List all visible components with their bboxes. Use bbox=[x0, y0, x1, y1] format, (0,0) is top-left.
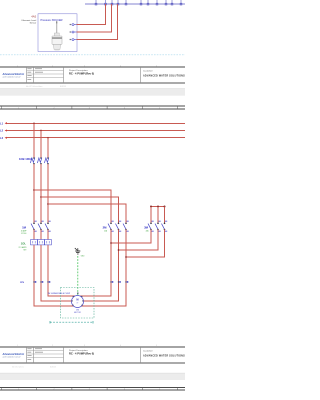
terminal marker T2 bbox=[40, 281, 43, 283]
wire rail L1 arrowhead bbox=[5, 122, 7, 124]
svg-text:1M SUBMERSIBLE PUMP: 1M SUBMERSIBLE PUMP bbox=[48, 293, 71, 295]
page 2 footer text bbox=[12, 367, 57, 369]
svg-text:3~: 3~ bbox=[76, 303, 78, 305]
wire 1M to 1OL phase A bbox=[33, 230, 35, 240]
wire L1 drop bbox=[33, 123, 35, 157]
junction L3 tap bbox=[47, 137, 49, 139]
page separator band bbox=[0, 89, 185, 96]
terminal marker T1 bbox=[33, 281, 36, 283]
svg-text:2: 2 bbox=[54, 389, 55, 391]
wire motor lead T5 vertical bbox=[84, 230, 119, 302]
svg-text:file:///C:/Users: file:///C:/Users bbox=[12, 367, 24, 369]
wire L2 drop bbox=[40, 131, 42, 158]
svg-text:5: 5 bbox=[159, 389, 160, 391]
motor nameplate text bbox=[74, 309, 81, 314]
junction tap to 2M phase C bbox=[47, 203, 49, 205]
sensor terminal 3 bbox=[70, 39, 77, 41]
wire tap phase C to 2M bbox=[48, 204, 126, 223]
breaker 1CB pole C bbox=[44, 157, 48, 164]
wire phase A vertical bbox=[33, 164, 35, 223]
svg-text:ADVANCED WATER SOLUTIONS: ADVANCED WATER SOLUTIONS bbox=[143, 74, 185, 77]
svg-text:and Controls Co Ltd: and Controls Co Ltd bbox=[3, 356, 22, 359]
svg-text:file:///C:/Users/docs: file:///C:/Users/docs bbox=[26, 86, 42, 88]
wire 3M pole C top bbox=[164, 207, 166, 224]
wire phase B vertical bbox=[40, 164, 42, 223]
contactor 2M pole B bbox=[116, 221, 122, 232]
overload 1OL element B bbox=[38, 240, 45, 245]
sensor enclosure box 4A5 bbox=[38, 14, 77, 52]
svg-text:1: 1 bbox=[18, 389, 19, 391]
wire motor lead T2 bbox=[41, 245, 72, 301]
contactor 2M pole A bbox=[108, 221, 114, 232]
svg-text:ADVANCED WATER SOLUTIONS: ADVANCED WATER SOLUTIONS bbox=[143, 354, 185, 357]
wire motor lead T4 vertical bbox=[80, 230, 111, 297]
svg-text:2: 2 bbox=[54, 108, 55, 110]
svg-text:1PS: 1PS bbox=[20, 282, 25, 284]
contactor 1M pole C bbox=[45, 221, 51, 232]
junction 3M-C on T6 bbox=[125, 256, 127, 258]
junction L1 tap bbox=[33, 122, 35, 124]
wire tap phase A to 2M bbox=[34, 190, 111, 223]
page 1 column ruler digits bbox=[17, 65, 157, 67]
title block page 1 bbox=[0, 67, 185, 83]
wire rail L3 bbox=[7, 137, 185, 139]
wire phase C vertical bbox=[47, 164, 49, 223]
svg-text:5: 5 bbox=[159, 108, 160, 110]
sensor terminal 1 bbox=[70, 24, 77, 26]
wire rail L1 bbox=[7, 122, 185, 124]
overload 1OL element C bbox=[45, 240, 52, 245]
junction 3M-A on T4 bbox=[110, 242, 112, 244]
terminal symbols on bus bbox=[95, 0, 182, 5]
svg-text:SET: SET bbox=[23, 250, 26, 252]
wire sensor signal 3 bbox=[77, 4, 118, 40]
wire motor lead T3 bbox=[48, 245, 75, 296]
wire motor lead T6 vertical bbox=[80, 230, 126, 307]
svg-text:3: 3 bbox=[89, 108, 90, 110]
svg-text:and Controls Co Ltd: and Controls Co Ltd bbox=[3, 76, 22, 79]
svg-text:3 POLE: 3 POLE bbox=[21, 233, 27, 235]
svg-text:1M: 1M bbox=[22, 226, 27, 230]
wire sensor signal 1 bbox=[77, 4, 106, 25]
annotation 4A5 ultrasonic level sensor bbox=[21, 15, 36, 25]
wire tap phase B to 2M bbox=[41, 197, 119, 223]
motor enclosure dashed box bbox=[61, 288, 95, 319]
svg-text:Pressure XDUCER: Pressure XDUCER bbox=[41, 18, 63, 22]
panel limit dashed teal line bbox=[50, 321, 93, 324]
wire sensor signal 2 bbox=[77, 4, 112, 32]
junction L2 tap bbox=[40, 130, 42, 132]
page 1 print margin dashed line bbox=[0, 54, 185, 56]
wire 3M pole B top bbox=[157, 207, 159, 224]
page 2 frame top border with ticks bbox=[0, 106, 185, 110]
terminal marker T4 bbox=[110, 281, 113, 283]
svg-text:Customer:: Customer: bbox=[143, 349, 153, 352]
title block page 2 bbox=[0, 347, 185, 363]
wire 3M pole A to T4 bbox=[111, 230, 151, 244]
svg-text:8/2015: 8/2015 bbox=[60, 86, 67, 88]
svg-text:Advanced Electric: Advanced Electric bbox=[2, 353, 25, 356]
svg-text:RC - 4 PUMP (Rev 0): RC - 4 PUMP (Rev 0) bbox=[69, 71, 94, 75]
overload 1OL setting text bbox=[19, 246, 27, 251]
terminal marker T5 bbox=[118, 281, 121, 283]
wire rail L2 arrowhead bbox=[5, 130, 7, 132]
svg-text:Customer:: Customer: bbox=[143, 69, 153, 72]
wire 1M to 1OL phase C bbox=[47, 230, 49, 240]
svg-text:MOTOR: MOTOR bbox=[74, 312, 81, 314]
svg-text:8/2015: 8/2015 bbox=[50, 367, 57, 369]
page 2 bottom ruler digits bbox=[17, 345, 157, 347]
sensor image bbox=[52, 21, 62, 50]
ground symbol bbox=[75, 248, 81, 254]
page 3 frame top border with ticks bbox=[0, 387, 185, 390]
svg-text:1: 1 bbox=[18, 108, 19, 110]
motor ground terminal tick bbox=[77, 293, 79, 294]
svg-text:4: 4 bbox=[124, 389, 125, 391]
svg-text:M: M bbox=[76, 297, 78, 301]
overload 1OL element A bbox=[31, 240, 38, 245]
svg-text:1OL: 1OL bbox=[21, 241, 27, 245]
svg-text:3: 3 bbox=[89, 389, 90, 391]
junction tap to 2M phase B bbox=[40, 196, 42, 198]
breaker 1CB pole A bbox=[30, 157, 34, 164]
sensor terminal 2 bbox=[70, 31, 77, 33]
junction tap to 2M phase A bbox=[33, 189, 35, 191]
svg-text:3M: 3M bbox=[144, 226, 149, 230]
svg-text:Advanced Electric: Advanced Electric bbox=[2, 73, 25, 76]
terminal marker T6 bbox=[125, 281, 128, 283]
contactor 1M pole B bbox=[38, 221, 44, 232]
page 1 footer text bbox=[26, 86, 67, 88]
contactor 1M pole A bbox=[31, 221, 37, 232]
wire 3M pole B to T5 bbox=[119, 230, 159, 251]
motor M1 circle bbox=[72, 296, 84, 308]
star point bus 3M bbox=[150, 206, 166, 208]
page separator band 2 bbox=[0, 373, 185, 380]
wire rail L3 arrowhead bbox=[5, 137, 7, 139]
wire rail L2 bbox=[7, 130, 185, 132]
contactor 3M pole B bbox=[155, 221, 161, 232]
terminal strip bus (page 1 top) bbox=[85, 3, 185, 5]
wire 3M pole A top bbox=[150, 207, 152, 224]
ground bond dashed wire bbox=[77, 256, 79, 295]
wire 1M to 1OL phase B bbox=[40, 230, 42, 240]
wire motor lead T1 bbox=[34, 245, 75, 306]
terminal marker T3 bbox=[47, 281, 50, 283]
svg-text:Sensor: Sensor bbox=[30, 21, 37, 24]
contactor 1M rating text bbox=[21, 230, 27, 235]
svg-text:2M: 2M bbox=[103, 226, 108, 230]
contactor 2M pole C bbox=[123, 221, 129, 232]
svg-text:1CB 100A: 1CB 100A bbox=[19, 157, 32, 161]
svg-text:RC - 4 PUMP (Rev 0): RC - 4 PUMP (Rev 0) bbox=[69, 351, 94, 355]
wire L3 drop bbox=[47, 138, 49, 158]
breaker 1CB pole B bbox=[37, 157, 41, 164]
wire 3M pole C to T6 bbox=[126, 230, 165, 258]
junction 3M-B on T5 bbox=[118, 249, 120, 251]
contactor 3M pole A bbox=[148, 221, 154, 232]
contactor 3M pole C bbox=[162, 221, 168, 232]
svg-text:4: 4 bbox=[124, 108, 125, 110]
svg-text:4A5: 4A5 bbox=[31, 15, 36, 19]
